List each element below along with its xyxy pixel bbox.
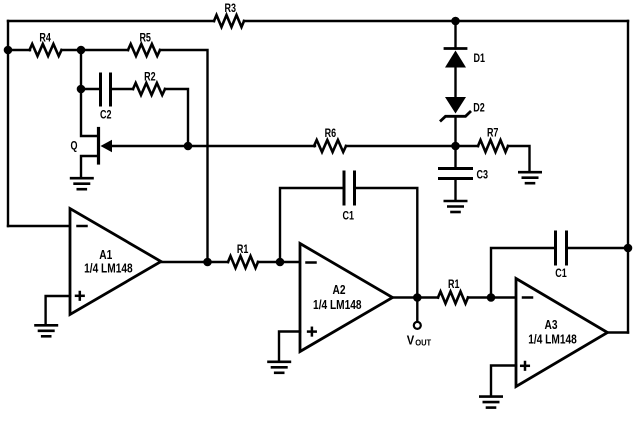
ground at C3: [445, 201, 466, 212]
wire A3 noninverting to ground: [491, 366, 516, 396]
node junction R6 R7 C3: [451, 142, 460, 151]
diode D2 body: [445, 97, 466, 114]
op-amp A2: [300, 244, 393, 352]
svg-text:C3: C3: [477, 169, 489, 181]
wire R6 to diode node: [346, 145, 456, 147]
transistor Q channel bar: [97, 129, 100, 164]
node junction x81 row2: [77, 46, 86, 55]
wire R5 down to A1 output node: [160, 50, 208, 262]
svg-text:R1: R1: [448, 279, 460, 291]
wire R1 to A3 inverting: [468, 296, 516, 298]
resistor R4: [30, 44, 62, 56]
op-amp A1: [70, 209, 161, 315]
pin minus A3: [523, 296, 532, 299]
capacitor C3: [440, 169, 472, 179]
svg-text:R4: R4: [39, 32, 51, 44]
wire C1 to A2 output: [355, 188, 418, 298]
svg-text:D1: D1: [474, 53, 486, 65]
wire top rail to D1: [454, 21, 456, 49]
wire C2 to R2: [111, 88, 134, 90]
wire A1 inverting input feed: [8, 225, 70, 227]
wire A2 noninverting to ground: [279, 332, 300, 361]
ground at A2 plus: [269, 362, 290, 373]
capacitor C1 (A3): [556, 232, 567, 264]
resistor R1 (A2-A3): [438, 292, 468, 304]
resistor R2: [133, 83, 165, 95]
wire x81 vertical to JFET drain: [81, 50, 98, 136]
svg-text:A2: A2: [333, 283, 346, 297]
transistor Q source lead: [81, 156, 99, 177]
wire R4 to R5: [62, 49, 129, 51]
svg-text:R7: R7: [487, 128, 499, 140]
svg-text:Q: Q: [71, 141, 78, 153]
diode D1 cathode bar: [445, 47, 466, 50]
wire top rail left segment: [8, 20, 214, 22]
svg-text:V: V: [407, 333, 415, 347]
diode D2 zener bar: [441, 112, 470, 121]
wire R2 down to gate node: [165, 89, 188, 146]
wire A3 output to right rail: [608, 331, 629, 333]
pin plus A1: [76, 292, 84, 300]
node junction left rail row2: [4, 46, 13, 55]
svg-text:1/4 LM148: 1/4 LM148: [84, 261, 133, 276]
capacitor C2: [101, 74, 111, 105]
pin minus A1: [78, 225, 87, 228]
ground at A3 plus: [480, 397, 501, 408]
op-amp A3: [516, 279, 608, 387]
wire C2 stub: [81, 88, 100, 90]
svg-text:D2: D2: [473, 102, 485, 114]
ground at A1 plus: [36, 325, 57, 336]
transistor Q gate arrowhead: [101, 140, 113, 153]
svg-text:C1: C1: [555, 268, 567, 280]
node junction A3 inverting / C1: [487, 293, 496, 302]
wire C1 loop A3: [491, 248, 556, 298]
resistor R7: [478, 140, 508, 152]
wire A1 noninverting to ground: [46, 296, 70, 323]
svg-text:1/4 LM148: 1/4 LM148: [313, 297, 362, 312]
svg-text:R3: R3: [225, 3, 237, 15]
wire gate line to R6: [111, 145, 315, 147]
wire row2 left: [8, 49, 30, 51]
wire right rail: [627, 21, 629, 333]
pin plus A3: [521, 362, 529, 370]
wire C1 to right rail: [567, 247, 629, 249]
wire A2 output: [393, 296, 439, 298]
wire left rail: [7, 21, 9, 226]
node junction C2 tap: [77, 85, 86, 94]
pin minus A2: [307, 261, 316, 264]
pin plus A2: [308, 328, 316, 336]
svg-text:R2: R2: [144, 72, 156, 84]
wire R1 to A2 inverting: [258, 261, 300, 263]
diode D1 body: [445, 51, 466, 68]
wire D2 to node: [454, 116, 456, 146]
node junction A1 output / R5: [203, 258, 212, 267]
svg-text:C2: C2: [100, 109, 112, 121]
node junction A2 output: [413, 293, 422, 302]
ground at Q source: [71, 178, 92, 189]
wire node to R7: [456, 145, 479, 147]
wire node to C3: [454, 146, 456, 168]
node junction right rail C1: [624, 244, 633, 253]
wire A1 output: [161, 261, 228, 263]
svg-text:1/4 LM148: 1/4 LM148: [528, 331, 577, 346]
resistor R1 (A1-A2): [228, 256, 258, 268]
svg-text:R5: R5: [139, 32, 151, 44]
resistor R6: [314, 140, 346, 152]
wire C1 loop A2: [280, 188, 344, 262]
node junction gate / R2: [184, 142, 193, 151]
svg-text:R6: R6: [325, 128, 337, 140]
node junction A2 inverting / C1: [276, 258, 285, 267]
ground at R7: [519, 172, 540, 183]
resistor R3: [214, 15, 244, 27]
wire top rail right segment: [244, 20, 628, 22]
node junction top rail diode: [451, 17, 460, 26]
svg-text:OUT: OUT: [415, 337, 432, 347]
svg-text:A3: A3: [545, 318, 558, 332]
svg-text:R1: R1: [237, 244, 249, 256]
svg-text:C1: C1: [343, 211, 355, 223]
wire VOUT stub: [416, 298, 418, 321]
wire R7 to ground: [508, 146, 530, 170]
capacitor C1 (A2): [344, 172, 355, 204]
node VOUT terminal: [414, 322, 421, 329]
wire D1 to D2: [454, 68, 456, 98]
resistor R5: [128, 44, 160, 56]
wire C3 to ground: [454, 179, 456, 200]
